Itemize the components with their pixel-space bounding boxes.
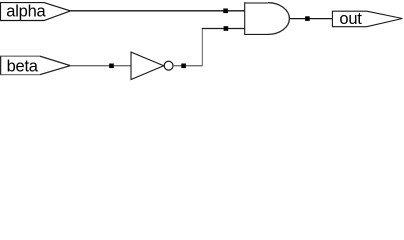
wire alpha to AND input 1: [71, 10, 245, 12]
node junction dot on AND input 2 wire: [224, 26, 229, 31]
AND gate U2 arc: [268, 3, 289, 35]
tunnel flag beta: [1, 56, 71, 74]
inverter NOT gate U1 bubble: [164, 61, 173, 70]
wire beta to NOT input: [70, 65, 131, 67]
inverter NOT gate U1 triangle: [131, 52, 164, 79]
node junction dot on output wire: [305, 16, 310, 21]
wire AND output to out flag: [289, 18, 332, 20]
node junction dot on beta wire: [109, 64, 114, 69]
node junction dot on NOT output wire: [181, 64, 186, 69]
node junction dot on alpha wire: [223, 9, 228, 14]
AND gate U2 left edge: [244, 2, 246, 35]
AND gate U2 bottom edge: [245, 33, 268, 35]
tunnel flag alpha: [1, 3, 71, 21]
wire riser to AND input 2: [202, 28, 245, 30]
AND gate U2 top edge: [245, 2, 268, 4]
svg-text:alpha: alpha: [6, 2, 46, 20]
svg-text:beta: beta: [7, 58, 39, 76]
svg-text:out: out: [339, 10, 362, 28]
tunnel flag out: [332, 11, 402, 27]
wire NOT output to riser corner: [173, 65, 202, 67]
wire vertical riser: [201, 29, 203, 67]
